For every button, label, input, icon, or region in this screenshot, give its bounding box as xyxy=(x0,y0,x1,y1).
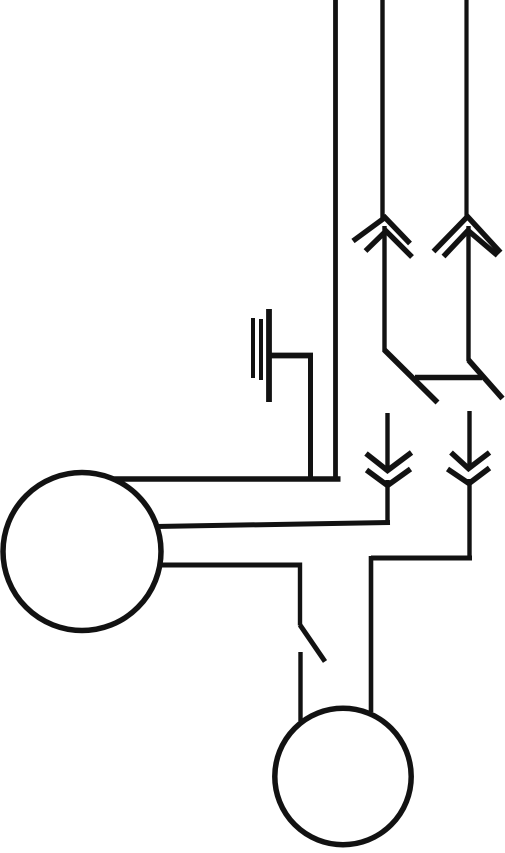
wire: bus 3b (lower horizontal between drops) xyxy=(371,556,472,561)
switch blade S1 (diagonal on riser B) xyxy=(385,350,438,403)
wire: left down-arrow drop, upper segment xyxy=(385,413,389,468)
flow arrow (down, double chevron) on right drop xyxy=(448,453,490,484)
machine M1 (large circle, left) xyxy=(3,473,161,631)
wire: left down-arrow drop, lower segment to bus 2 xyxy=(385,480,389,525)
flow arrow (up, double chevron) on riser C xyxy=(434,217,501,257)
wire: ground stub (horizontal) xyxy=(269,353,313,359)
flow arrow (up, double chevron) on riser B xyxy=(353,218,412,258)
wire: riser B upper segment xyxy=(380,0,384,219)
switch blade S2 (diagonal on riser C) xyxy=(469,360,503,399)
ground electrode symbol: short bar xyxy=(251,318,255,378)
wire: bus 1 (top horizontal from machine M1 to riser A) xyxy=(113,476,341,481)
wire: riser C middle segment xyxy=(466,226,470,361)
wire: bus 3a (lower horizontal from M1 to switch drop) xyxy=(158,563,302,568)
wire: riser C upper segment xyxy=(464,0,468,218)
wire: riser A (left vertical line from top) xyxy=(333,0,338,478)
wire: bus 2 (middle horizontal from M1 to left down-arrow drop) xyxy=(156,523,390,527)
switch blade S3 (diagonal, bottom) xyxy=(300,625,325,662)
flow arrow (down, double chevron) on left drop xyxy=(366,453,412,486)
wire: switch drop from bus 3a xyxy=(298,563,302,626)
wire: lower drop to machine M2 (left) xyxy=(298,652,302,721)
ground electrode symbol: middle bar xyxy=(259,319,263,380)
machine M2 (large circle, bottom) xyxy=(275,708,411,844)
wire: right down-arrow drop, upper segment xyxy=(467,411,471,466)
wire: right down-arrow drop, lower segment to bus 3b xyxy=(467,479,471,560)
wire: right drop to machine M2 xyxy=(369,556,374,712)
wire: riser B middle segment xyxy=(382,226,386,352)
wire: tie between switch blades xyxy=(415,375,482,380)
wire: ground tap down to bus 1 xyxy=(308,353,313,480)
ground electrode symbol: long bar xyxy=(266,309,272,402)
